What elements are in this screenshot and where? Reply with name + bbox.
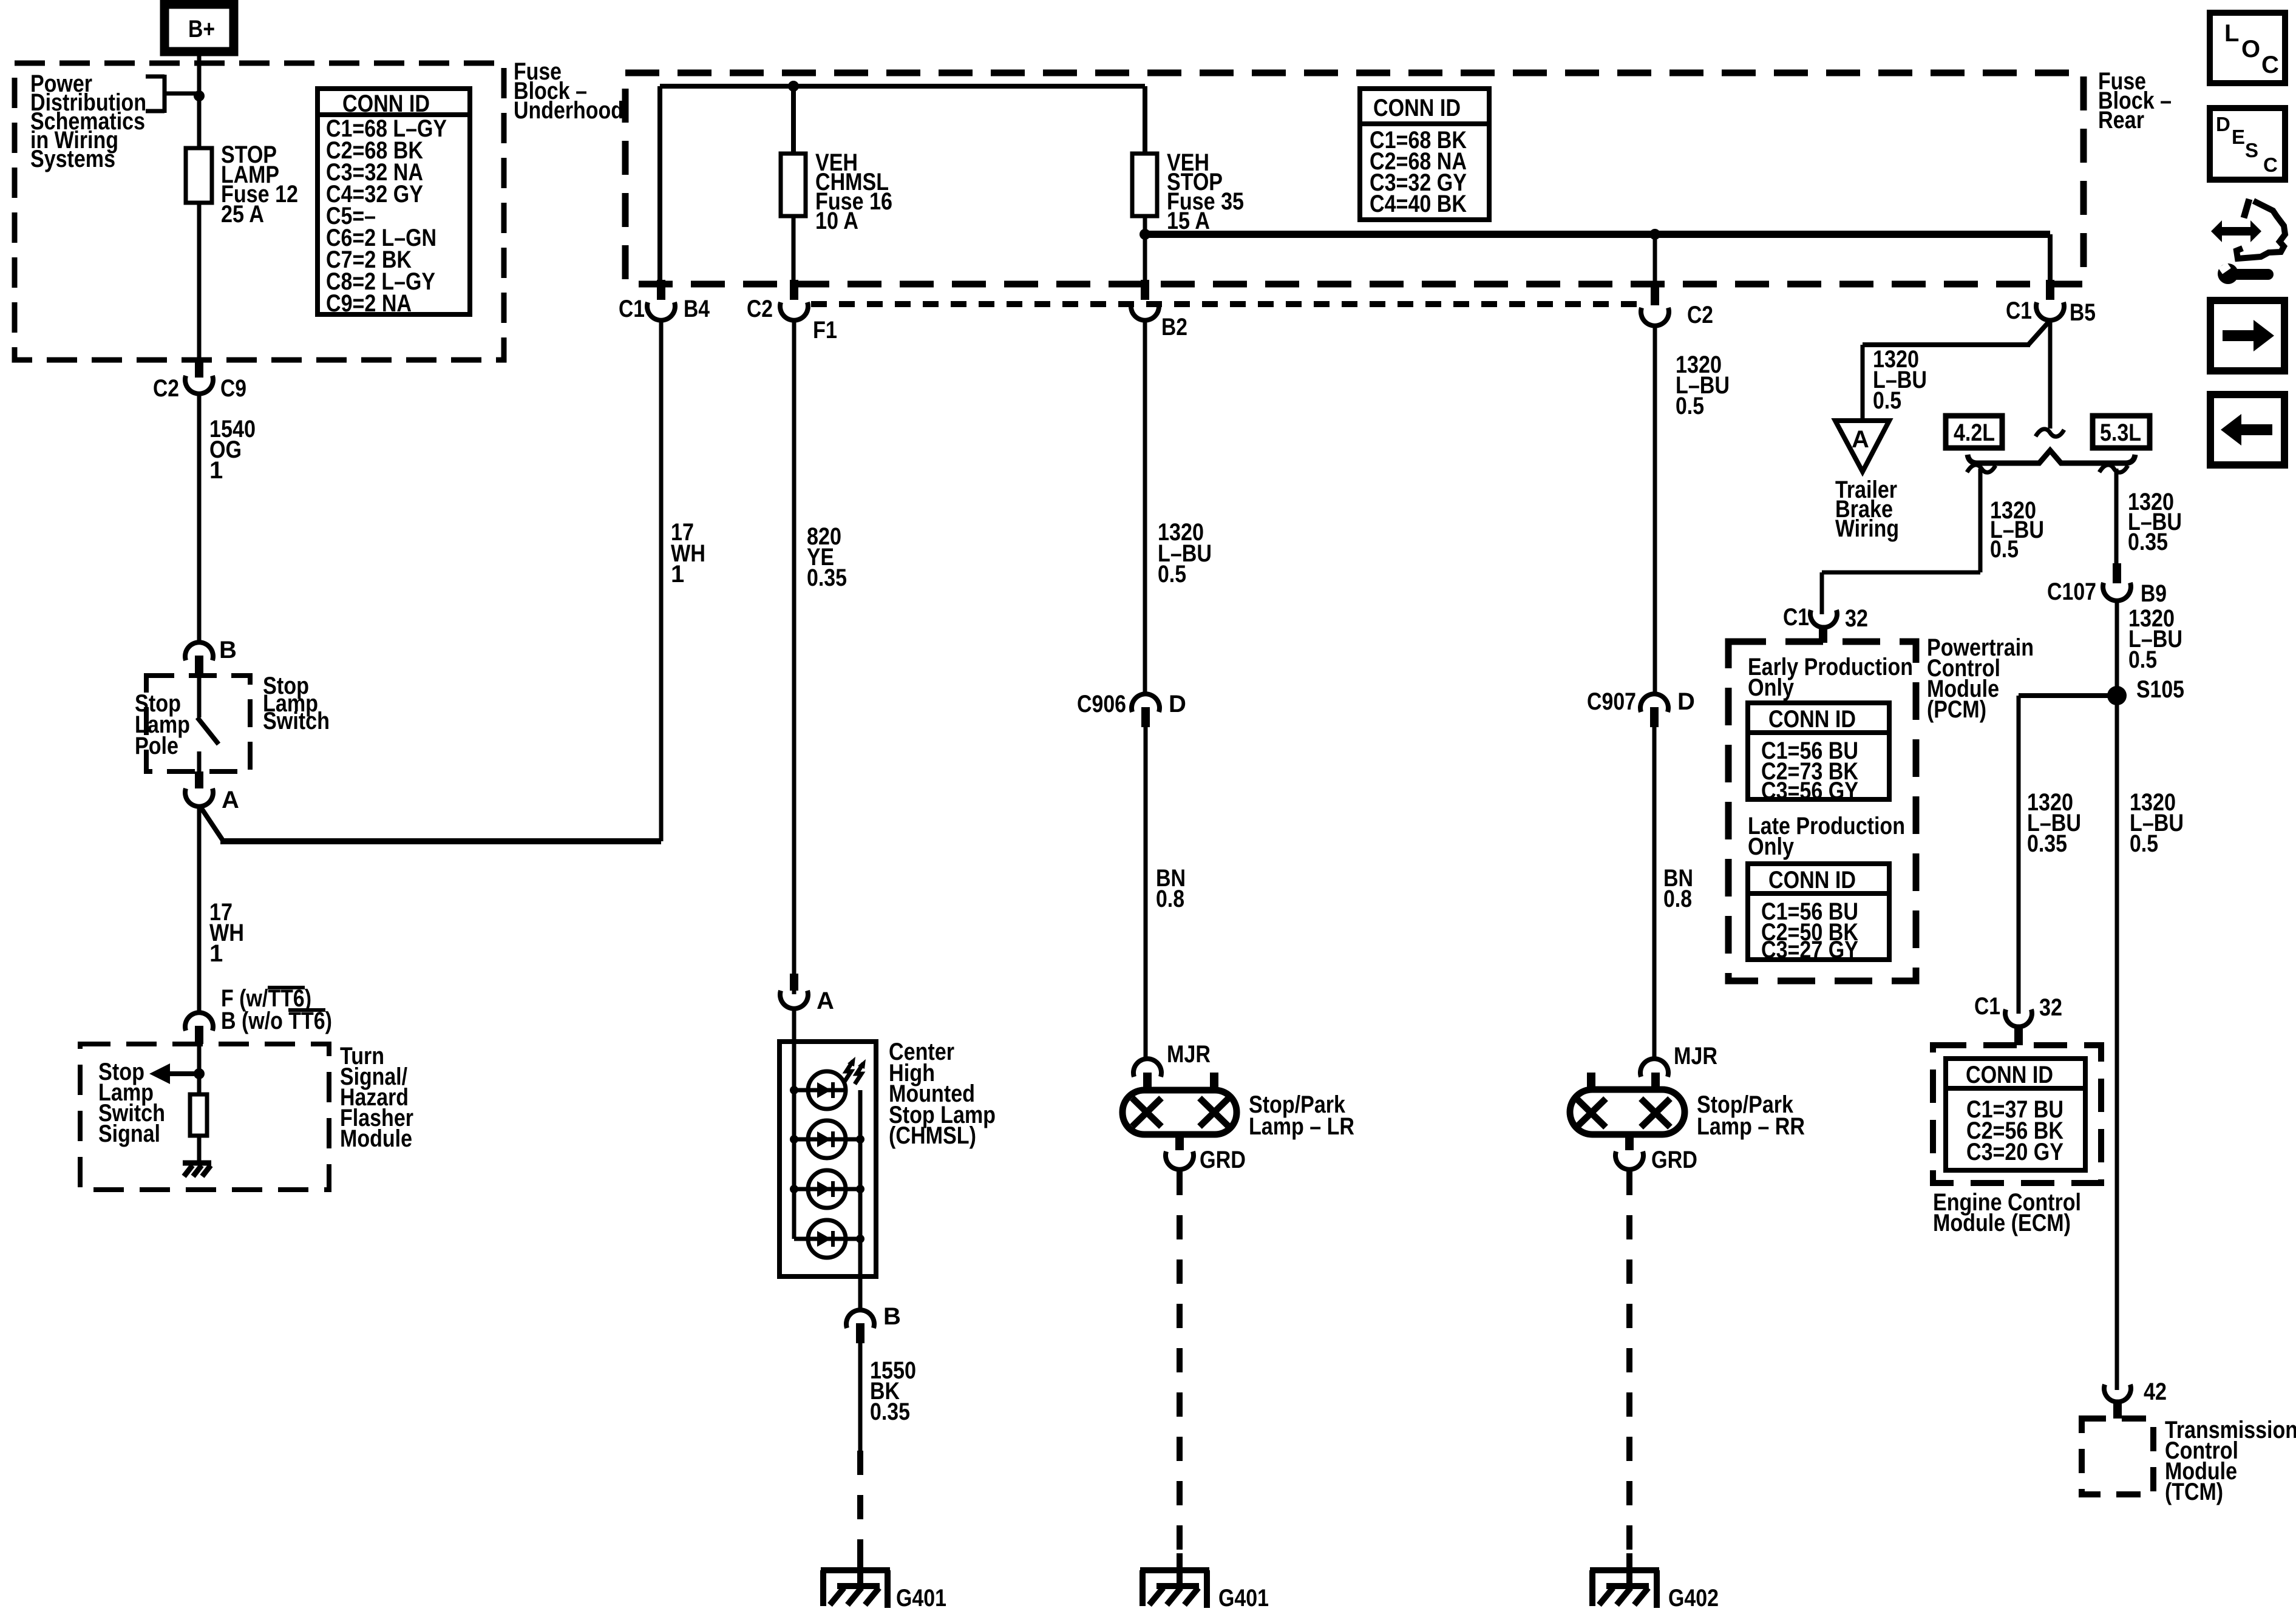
svg-text:C906: C906: [1077, 691, 1126, 717]
connector C1/B5: [2006, 280, 2096, 326]
svg-text:CONN ID: CONN ID: [342, 90, 430, 117]
svg-text:D: D: [2216, 113, 2230, 135]
switch pole blade: [197, 675, 219, 772]
svg-text:MJR: MJR: [1167, 1041, 1211, 1068]
svg-text:B5: B5: [2070, 299, 2096, 326]
svg-text:CONN ID: CONN ID: [1768, 706, 1856, 733]
vehicle service icon: [2211, 199, 2285, 284]
connector A (stop lamp switch): [185, 771, 239, 813]
label: Powertrain Control Module (PCM): [1927, 634, 2034, 723]
resistor (flasher module internal): [190, 1094, 207, 1136]
svg-text:C1: C1: [1783, 604, 1809, 631]
wire into CHMSL: [792, 1008, 796, 1090]
svg-text:B: B: [883, 1303, 901, 1330]
wire BN 0.8 to LR lamp: [1144, 727, 1148, 1059]
label: Stop Lamp Pole: [135, 690, 190, 759]
stop/park lamp LR: [1123, 1073, 1237, 1150]
svg-text:Module: Module: [340, 1125, 412, 1152]
svg-text:C: C: [2261, 52, 2279, 78]
wire: fuse 35 down to B2: [1143, 216, 1147, 280]
svg-text:C9=2 NA: C9=2 NA: [326, 290, 412, 317]
bracket to power distribution note: [146, 75, 199, 113]
connector GRD (LR lamp): [1166, 1147, 1246, 1173]
svg-text:0.35: 0.35: [2128, 529, 2168, 555]
internal ground (flasher module): [183, 1163, 211, 1176]
svg-text:B: B: [219, 637, 237, 663]
svg-text:B+: B+: [188, 16, 215, 42]
next-page arrow icon: [2210, 300, 2284, 371]
label: Transmission Control Module (TCM): [2165, 1417, 2296, 1505]
stop lamp feed bus to B5: [1145, 231, 2050, 238]
svg-text:C1: C1: [2006, 297, 2032, 324]
svg-text:5.3L: 5.3L: [2100, 419, 2141, 446]
internal feed bus of rear fuse block: [660, 86, 1145, 280]
wire 17 WH 1: B4 down to switch A branch: [659, 321, 664, 841]
svg-text:32: 32: [1845, 605, 1868, 632]
svg-text:(TCM): (TCM): [2165, 1479, 2223, 1505]
CONN ID table (PCM early): [1748, 703, 1889, 804]
svg-text:B4: B4: [684, 296, 710, 322]
svg-text:(CHMSL): (CHMSL): [889, 1122, 976, 1149]
wire: fuse 16 to F1: [792, 216, 796, 280]
wire BN 0.8 to RR lamp: [1652, 727, 1657, 1059]
label: Engine Control Module (ECM): [1933, 1189, 2081, 1236]
svg-text:D: D: [1677, 688, 1695, 715]
connector C2/F1: [747, 280, 837, 344]
connector A (CHMSL): [780, 974, 834, 1014]
svg-text:0.35: 0.35: [2027, 830, 2067, 857]
break symbol 5.3L branch: [2099, 465, 2128, 472]
LED D4: [794, 1220, 864, 1258]
CHMSL lamp assembly box: [779, 1042, 876, 1276]
svg-text:4.2L: 4.2L: [1954, 419, 1995, 446]
wire label 1320 L-BU 0.5 (trailer): [1873, 346, 1927, 414]
svg-text:0.35: 0.35: [807, 564, 847, 591]
svg-text:D: D: [1169, 691, 1186, 717]
dashed ground wire LR: [1177, 1171, 1183, 1555]
svg-text:0.5: 0.5: [1158, 561, 1186, 588]
connector C1 pin 32 (PCM): [1783, 604, 1868, 643]
wire 1320 L-BU 0.5: B2 to C906: [1143, 321, 1147, 694]
break symbol on B5 wire: [2036, 429, 2064, 436]
junction node at fuse 16 tap: [788, 81, 799, 92]
svg-text:S: S: [2245, 139, 2258, 161]
svg-text:C1: C1: [619, 296, 645, 322]
svg-text:F1: F1: [813, 317, 837, 344]
svg-text:B2: B2: [1161, 314, 1187, 341]
wire: B+ to fuse 12: [197, 52, 202, 148]
svg-text:Wiring: Wiring: [1835, 515, 1899, 542]
svg-text:0.8: 0.8: [1156, 886, 1184, 912]
svg-text:C4=40 BK: C4=40 BK: [1370, 191, 1467, 217]
fuse F35 VEH STOP 15A: [1132, 154, 1157, 216]
label: Stop/Park Lamp - RR: [1697, 1091, 1805, 1140]
svg-text:L: L: [2224, 20, 2239, 47]
LED D2: [790, 1120, 864, 1158]
connector 42 (TCM): [2104, 1378, 2167, 1419]
connector B (CHMSL ground lead): [846, 1303, 901, 1343]
wire 1550 BK 0.35: [858, 1343, 863, 1451]
label: Stop/Park Lamp - LR: [1249, 1091, 1354, 1140]
svg-text:Switch: Switch: [263, 708, 330, 734]
wire 820 YE 0.35: F1 to CHMSL: [792, 321, 796, 994]
note: Power Distribution Schematics in Wiring Systems: [30, 70, 146, 172]
CONN ID table (ECM): [1946, 1059, 2085, 1170]
dashed ground wire RR: [1626, 1171, 1632, 1555]
svg-text:0.8: 0.8: [1663, 886, 1692, 912]
svg-text:B9: B9: [2141, 580, 2167, 607]
label: Early Production Only: [1748, 654, 1913, 701]
svg-text:Only: Only: [1748, 833, 1795, 860]
5.3L branch wire 1320 L-BU 0.35 to C107: [2114, 469, 2119, 563]
svg-text:G401: G401: [896, 1585, 946, 1612]
LOC icon box: [2210, 13, 2285, 83]
ground G402 (RR lamp): [1590, 1553, 1659, 1608]
connector MJR (RR lamp): [1640, 1043, 1717, 1077]
PCM dashed box: [1728, 642, 1916, 981]
svg-text:1: 1: [209, 457, 223, 484]
CHMSL LED bus left: [792, 1090, 796, 1239]
splice S105: [2107, 676, 2184, 705]
CHMSL LED bus right: [858, 1090, 863, 1309]
svg-text:A: A: [817, 988, 834, 1014]
B+ power symbol: [165, 4, 234, 52]
DESC icon box: [2210, 108, 2285, 180]
svg-text:32: 32: [2039, 994, 2062, 1021]
CONN ID table (PCM late): [1748, 864, 1889, 963]
wire label 1320 L-BU 0.35 (ECM branch): [2027, 789, 2081, 857]
svg-text:15 A: 15 A: [1167, 208, 1210, 234]
svg-text:42: 42: [2144, 1378, 2167, 1405]
svg-text:MJR: MJR: [1674, 1043, 1717, 1070]
wire: A down: [197, 806, 202, 1013]
svg-text:CONN ID: CONN ID: [1966, 1062, 2053, 1088]
svg-text:C3=20 GY: C3=20 GY: [1966, 1139, 2063, 1165]
illumination arrows: [844, 1057, 866, 1084]
connector C107 pin B9: [2047, 563, 2167, 607]
branch to trailer brake: diagonal + run: [2028, 322, 2049, 345]
junction node stop feed bus: [1140, 229, 1150, 240]
fuse F12 STOP LAMP 25A: [186, 148, 212, 203]
svg-text:Signal: Signal: [98, 1120, 160, 1147]
svg-text:10 A: 10 A: [815, 208, 858, 234]
svg-text:CONN ID: CONN ID: [1373, 95, 1461, 121]
label: Fuse Block - Underhood: [514, 58, 623, 124]
connector B (stop lamp switch): [185, 637, 237, 675]
junction node RR lamp tap: [1649, 229, 1660, 240]
CONN ID table (underhood): [318, 89, 470, 317]
connector C2 (rear body): [1641, 285, 1713, 328]
svg-text:Only: Only: [1748, 674, 1795, 701]
svg-text:Lamp – RR: Lamp – RR: [1697, 1113, 1805, 1140]
svg-text:1: 1: [209, 940, 223, 967]
stop lamp switch dashed box: [146, 676, 250, 771]
svg-text:A: A: [222, 787, 239, 813]
ground G401 (LR lamp): [1140, 1553, 1209, 1608]
harness boundary dotted line: [811, 301, 1640, 307]
fuse block underhood dashed box: [15, 63, 504, 360]
break symbol 4.2L branch: [1967, 465, 1995, 472]
previous-page arrow icon: [2210, 395, 2284, 465]
wire label 1320 L-BU 0.5 (TCM run): [2130, 789, 2184, 857]
label: Center High Mounted Stop Lamp (CHMSL): [889, 1039, 996, 1149]
off-page triangle A: trailer brake wiring: [1835, 421, 1889, 472]
svg-text:GRD: GRD: [1200, 1147, 1246, 1173]
5.3L option box: [2093, 416, 2150, 448]
svg-text:G402: G402: [1668, 1585, 1719, 1612]
wire label 17 WH 1 (left): [209, 899, 244, 967]
wire 1320 L-BU 0.5: B9 to S105 and down to TCM: [2115, 602, 2119, 1390]
svg-text:1: 1: [671, 561, 684, 588]
svg-text:O: O: [2241, 36, 2260, 63]
svg-text:Systems: Systems: [30, 146, 115, 172]
svg-text:C1: C1: [1974, 993, 2000, 1020]
fuse F16 VEH CHMSL 10A: [781, 154, 806, 216]
svg-text:E: E: [2232, 126, 2245, 148]
svg-text:C3=27 GY: C3=27 GY: [1761, 937, 1858, 963]
ground G401 (CHMSL): [821, 1553, 890, 1608]
connector C907 pin D: [1587, 688, 1695, 727]
svg-text:0.5: 0.5: [1873, 387, 1901, 414]
4.2L option box: [1946, 416, 2002, 448]
svg-text:C2: C2: [1687, 302, 1713, 328]
svg-text:(PCM): (PCM): [1927, 696, 1986, 723]
connector F/B (flasher module): [185, 985, 332, 1044]
CONN ID table (rear): [1360, 89, 1489, 220]
connector C906 pin D: [1077, 691, 1186, 727]
connector B2: [1131, 280, 1187, 341]
svg-text:G401: G401: [1218, 1585, 1269, 1612]
svg-text:Rear: Rear: [2098, 107, 2144, 134]
svg-text:25 A: 25 A: [221, 201, 264, 228]
svg-text:C: C: [2263, 154, 2278, 176]
label: Stop Lamp Switch Signal: [98, 1059, 165, 1147]
wire into module: [197, 1044, 202, 1094]
junction node on B+ feed: [194, 90, 205, 101]
wire 1540 OG 1: [197, 395, 202, 642]
svg-text:C107: C107: [2047, 578, 2096, 605]
label: Stop Lamp Switch: [263, 673, 330, 734]
label: Late Production Only: [1748, 813, 1905, 860]
LED D1: [790, 1071, 846, 1109]
junction node stop lamp switch signal: [194, 1068, 205, 1079]
connector C1 pin 32 (ECM): [1974, 993, 2062, 1045]
svg-text:C9: C9: [220, 375, 246, 402]
4.2L branch wire 1320 L-BU 0.5 to PCM: [1978, 469, 1983, 572]
signal arrow to Stop Lamp Switch Signal: [149, 1063, 199, 1084]
wire: S105 to ECM branch: [2019, 693, 2117, 698]
connector MJR (LR lamp): [1133, 1041, 1211, 1077]
label: Fuse Block - Rear: [2098, 68, 2172, 134]
wire 1320 L-BU 0.5: C2 to C907: [1653, 327, 1657, 694]
svg-text:A: A: [1852, 426, 1869, 453]
wire: A branch diagonal to B4 feed: [200, 807, 222, 839]
TCM dashed box: [2082, 1419, 2153, 1494]
svg-text:Lamp – LR: Lamp – LR: [1249, 1113, 1354, 1140]
wire: fuse 12 to C2/C9: [197, 203, 202, 360]
wire from B5 down: [2048, 320, 2053, 429]
svg-text:0.35: 0.35: [870, 1398, 910, 1425]
LED D3: [790, 1170, 864, 1208]
svg-text:0.5: 0.5: [1990, 536, 2019, 563]
svg-text:0.5: 0.5: [1676, 393, 1704, 419]
dashed ground wire CHMSL: [857, 1451, 863, 1555]
svg-text:C3=56 GY: C3=56 GY: [1761, 778, 1858, 804]
ECM dashed box: [1933, 1045, 2101, 1183]
svg-text:0.5: 0.5: [2130, 830, 2158, 857]
svg-text:Pole: Pole: [135, 733, 178, 759]
svg-text:CONN ID: CONN ID: [1768, 867, 1856, 893]
connector GRD (RR lamp): [1615, 1147, 1697, 1173]
fuse block rear dashed box: [625, 73, 2084, 284]
stop/park lamp RR: [1570, 1073, 1685, 1150]
connector C1/B4: [619, 280, 710, 322]
svg-text:S105: S105: [2136, 676, 2184, 703]
turn signal / hazard flasher module dashed box: [80, 1044, 329, 1190]
svg-text:C907: C907: [1587, 688, 1636, 715]
svg-text:C2: C2: [153, 375, 179, 402]
engine option brace: [1968, 450, 2135, 463]
connector C2/C9: [153, 360, 246, 402]
label: Turn Signal/Hazard Flasher Module: [340, 1043, 413, 1152]
svg-text:GRD: GRD: [1651, 1147, 1697, 1173]
svg-text:C2: C2: [747, 296, 773, 322]
svg-text:0.5: 0.5: [2128, 646, 2157, 673]
svg-text:Module (ECM): Module (ECM): [1933, 1210, 2071, 1236]
svg-text:Underhood: Underhood: [514, 97, 623, 124]
